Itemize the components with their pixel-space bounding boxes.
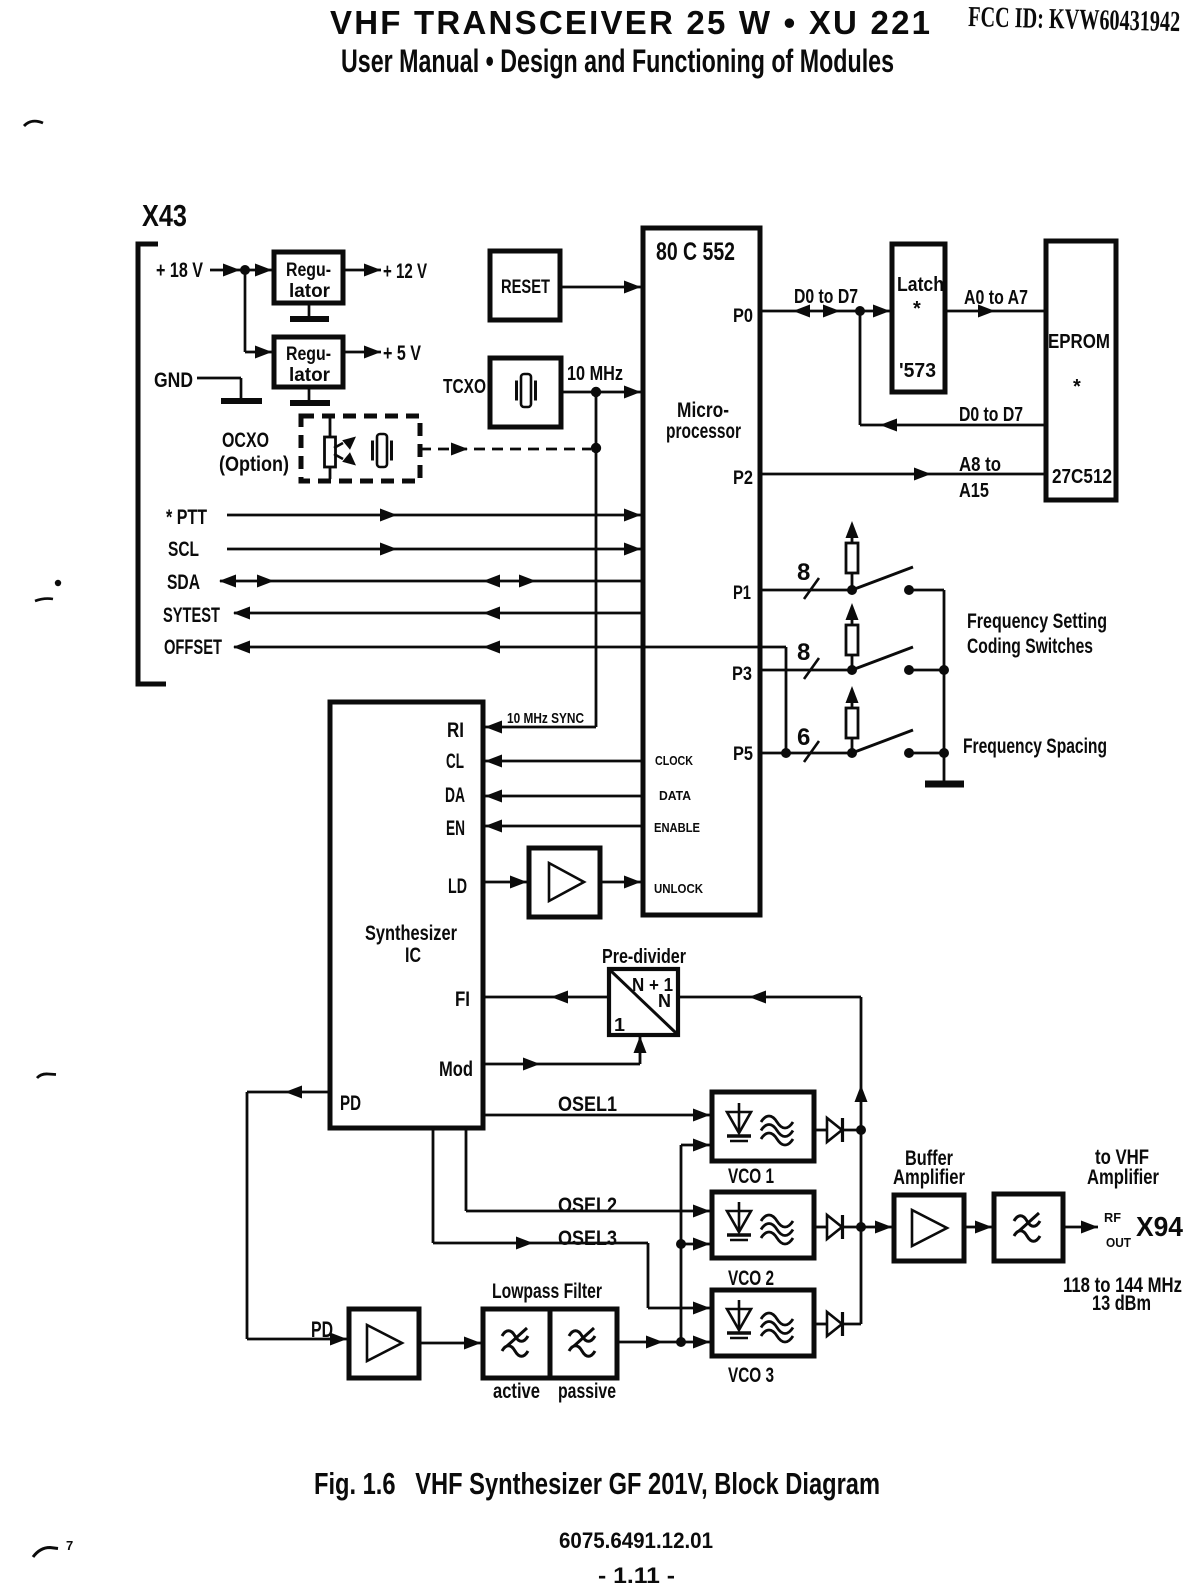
EPROM U 27C512 box [1046, 241, 1116, 500]
svg-text:6075.6491.12.01: 6075.6491.12.01 [559, 1528, 713, 1553]
svg-text:EN: EN [446, 817, 465, 840]
wire +5V output [343, 346, 381, 359]
junction dot data bus [855, 306, 865, 316]
svg-text:LD: LD [448, 875, 467, 898]
svg-text:processor: processor [666, 420, 741, 443]
wire RESET to microprocessor [560, 281, 641, 294]
svg-text:OSEL2: OSEL2 [558, 1194, 617, 1217]
net A8 to A15 label [959, 454, 1001, 502]
wire tune voltage to VCO2 [681, 1238, 710, 1251]
svg-text:Fig. 1.6 VHF Synthesizer GF: Fig. 1.6 VHF Synthesizer GF 201V, Block … [314, 1466, 880, 1501]
svg-text:80 C 552: 80 C 552 [656, 238, 735, 266]
RESET box [490, 251, 560, 320]
svg-text:*: * [1073, 376, 1081, 398]
svg-text:8: 8 [797, 559, 810, 586]
svg-text:P1: P1 [733, 583, 751, 604]
svg-text:'573: '573 [899, 360, 936, 382]
wire CLOCK to CL [485, 755, 643, 768]
svg-text:10 MHz SYNC: 10 MHz SYNC [507, 710, 584, 727]
svg-text:VCO 3: VCO 3 [728, 1364, 774, 1387]
bus width 6 marker P5 [797, 724, 819, 762]
svg-text:P3: P3 [732, 664, 752, 685]
junction +18V branch [240, 265, 250, 275]
svg-text:DA: DA [445, 784, 465, 807]
wire OFFSET to P5 [233, 641, 786, 754]
buffer amplifier box [894, 1195, 964, 1261]
svg-text:lator: lator [289, 365, 331, 386]
svg-text:RF: RF [1104, 1210, 1121, 1225]
wire tune voltage to VCO1 [681, 1139, 710, 1343]
svg-text:*: * [913, 298, 921, 320]
svg-text:Micro-: Micro- [677, 399, 729, 422]
svg-text:+ 12 V: + 12 V [383, 260, 427, 283]
VCO3 box [712, 1290, 814, 1356]
svg-text:OFFSET: OFFSET [164, 636, 222, 659]
regulator +12V box [274, 252, 343, 303]
svg-text:Coding Switches: Coding Switches [967, 635, 1093, 658]
svg-text:User Manual • Design and Funct: User Manual • Design and Functioning of … [341, 43, 894, 79]
svg-text:7: 7 [66, 1538, 73, 1553]
label 118 to 144 MHz [1063, 1274, 1182, 1315]
svg-text:(Option): (Option) [219, 453, 289, 476]
svg-text:P2: P2 [733, 468, 753, 489]
svg-text:FI: FI [455, 988, 470, 1011]
svg-text:PD: PD [340, 1092, 361, 1115]
TCXO box [490, 358, 561, 427]
wire PD loop to lowpass amplifier [247, 1086, 347, 1346]
svg-text:GND: GND [154, 369, 193, 392]
svg-text:UNLOCK: UNLOCK [654, 881, 704, 896]
regulator +5V box [274, 337, 343, 387]
label to VHF Amplifier [1087, 1146, 1159, 1189]
svg-text:VCO 2: VCO 2 [728, 1267, 774, 1290]
svg-text:Mod: Mod [439, 1058, 473, 1081]
svg-text:OSEL1: OSEL1 [558, 1093, 617, 1116]
pre-divider N+1/N box [609, 969, 678, 1035]
VCO2 box [712, 1192, 814, 1258]
wire SYTEST [233, 607, 643, 620]
svg-text:VCO 1: VCO 1 [728, 1165, 774, 1188]
svg-text:Lowpass Filter: Lowpass Filter [492, 1280, 602, 1303]
wire PTT [227, 509, 641, 522]
svg-text:X43: X43 [142, 198, 187, 233]
pullup resistor R3 [846, 686, 859, 753]
svg-text:A0 to A7: A0 to A7 [964, 287, 1028, 309]
microprocessor U 80C552 box [643, 228, 760, 915]
diode D2 VCO2 output [814, 1215, 892, 1239]
svg-text:CLOCK: CLOCK [655, 753, 694, 768]
wire 10MHz sync to RI [485, 721, 596, 734]
net RF OUT label [1104, 1210, 1131, 1250]
OCXO label [219, 429, 289, 476]
Buffer Amplifier label [893, 1147, 965, 1189]
ground below +5V regulator [290, 387, 330, 403]
VCO1 box [712, 1092, 814, 1161]
microprocessor name label [666, 399, 741, 443]
svg-text:SDA: SDA [167, 571, 200, 594]
wire OSEL1 to VCO1 [483, 1109, 710, 1122]
diode D3 VCO3 output [814, 1312, 861, 1336]
wire switch common bus [943, 590, 946, 782]
wire P5 to coding switch 3 [760, 752, 852, 755]
svg-text:Frequency Setting: Frequency Setting [967, 610, 1107, 633]
OCXO trimmer resistor [325, 418, 357, 479]
svg-text:Amplifier: Amplifier [893, 1166, 965, 1189]
svg-text:27C512: 27C512 [1052, 466, 1112, 488]
junction dot VCO2 output [856, 1222, 866, 1232]
OCXO crystal [373, 434, 392, 467]
latch U '573 box [892, 244, 945, 392]
wire +18V branch down to 2nd regulator [245, 270, 274, 359]
svg-text:ENABLE: ENABLE [654, 820, 700, 835]
wire EPROM data return [860, 311, 1046, 432]
svg-text:Frequency Spacing: Frequency Spacing [963, 735, 1107, 758]
wire ENABLE to EN [485, 820, 643, 833]
wire buffer to output filter [964, 1221, 992, 1234]
wire VCO output bus with up arrow [855, 997, 868, 1324]
dashed wire OCXO to 10MHz node [420, 443, 591, 456]
wire filter to VCO3 tune input [617, 1336, 710, 1349]
TCXO crystal [517, 374, 536, 407]
svg-text:PD: PD [311, 1317, 333, 1342]
svg-text:TCXO: TCXO [443, 376, 486, 398]
svg-text:VHF TRANSCEIVER 25 W • XU 221: VHF TRANSCEIVER 25 W • XU 221 [330, 4, 930, 41]
wire SDA bidirectional [219, 575, 645, 588]
OCXO option dashed box [301, 416, 420, 481]
svg-text:- 1.11 -: - 1.11 - [598, 1563, 675, 1585]
svg-text:10 MHz: 10 MHz [567, 363, 623, 385]
svg-text:Regu-: Regu- [286, 260, 331, 281]
svg-text:lator: lator [289, 281, 331, 302]
wire +18V to regulator [210, 264, 274, 277]
svg-text:* PTT: * PTT [166, 506, 207, 529]
svg-text:RI: RI [447, 719, 464, 742]
svg-text:EPROM: EPROM [1048, 331, 1110, 353]
svg-text:6: 6 [797, 724, 810, 751]
wire P1 to coding switch 1 [760, 589, 852, 592]
output lowpass filter box [994, 1194, 1063, 1261]
switch S3 [847, 730, 949, 758]
svg-text:Amplifier: Amplifier [1087, 1166, 1159, 1189]
junction dot VCO1 output [856, 1125, 866, 1135]
wire TCXO 10MHz to microprocessor [561, 386, 641, 399]
svg-text:Synthesizer: Synthesizer [365, 922, 457, 945]
wire VCO feedback to pre-divider [678, 991, 861, 1004]
svg-text:active: active [493, 1380, 540, 1403]
synthesizer IC box [330, 702, 483, 1128]
svg-text:SCL: SCL [168, 538, 199, 561]
pullup resistor R2 [846, 603, 859, 670]
svg-text:N: N [658, 991, 671, 1011]
wire RF out [1063, 1221, 1098, 1234]
wire SCL [227, 543, 641, 556]
svg-text:OSEL3: OSEL3 [558, 1227, 617, 1250]
wire pre-divider to FI [483, 991, 609, 1004]
scan artifact marks [24, 121, 73, 1557]
svg-text:CL: CL [446, 750, 464, 773]
PD loop amplifier box [349, 1309, 419, 1378]
svg-text:OCXO: OCXO [222, 429, 269, 452]
ground GND symbol [221, 398, 262, 404]
wire LD to unlock amplifier [483, 876, 529, 889]
svg-text:P5: P5 [733, 744, 753, 765]
switch S2 [847, 647, 949, 675]
wire P3 to coding switch 2 [760, 669, 852, 672]
svg-text:D0 to D7: D0 to D7 [959, 404, 1023, 426]
junction dot OFFSET on P5 [781, 748, 791, 758]
wire P0 data bus to latch [760, 305, 890, 318]
pullup resistor R1 [846, 521, 859, 590]
wire latch to EPROM address [945, 305, 1046, 318]
ground switch bus [925, 781, 964, 788]
svg-text:A15: A15 [959, 480, 989, 502]
connector X43 bracket [138, 244, 166, 684]
svg-text:Regu-: Regu- [286, 344, 331, 365]
svg-text:+ 18 V: + 18 V [156, 259, 203, 282]
wire amplifier to UNLOCK [600, 876, 641, 889]
bus width 8 marker P1 [797, 559, 819, 599]
svg-text:D0 to D7: D0 to D7 [794, 286, 858, 308]
svg-text:Latch: Latch [897, 274, 944, 296]
wire Mod to pre-divider [483, 1036, 647, 1071]
svg-text:DATA: DATA [659, 788, 692, 803]
wire GND [197, 378, 241, 398]
synthesizer name label [365, 922, 457, 967]
lowpass filter active/passive box [483, 1309, 617, 1378]
wire DATA to DA [485, 790, 643, 803]
svg-text:Pre-divider: Pre-divider [602, 946, 686, 968]
diode D1 VCO1 output [814, 1118, 861, 1142]
svg-text:IC: IC [405, 944, 421, 967]
ground below +12V regulator [290, 303, 329, 319]
wire amplifier to lowpass filter [419, 1337, 481, 1350]
bus width 8 marker P3 [797, 639, 819, 679]
unlock amplifier box [529, 848, 600, 917]
junction dot OCXO/10MHz [591, 443, 601, 453]
label Frequency Setting [967, 610, 1107, 658]
wire OSEL3 to VCO3 [433, 1128, 710, 1315]
svg-text:X94: X94 [1136, 1211, 1183, 1242]
junction dot tune bus bottom [676, 1337, 686, 1347]
wire +12V output [343, 264, 381, 277]
wire 10MHz sync vertical [595, 392, 598, 727]
svg-text:P0: P0 [733, 306, 753, 327]
svg-text:SYTEST: SYTEST [163, 604, 220, 627]
svg-text:FCC ID: KVW60431942: FCC ID: KVW60431942 [968, 1, 1181, 38]
junction dot 10MHz [591, 387, 601, 397]
wire OSEL2 to VCO2 [466, 1128, 710, 1218]
svg-text:OUT: OUT [1106, 1235, 1131, 1250]
svg-text:RESET: RESET [501, 277, 550, 298]
svg-text:8: 8 [797, 639, 810, 666]
wire P2 to EPROM address high [760, 468, 1046, 481]
svg-text:passive: passive [558, 1380, 616, 1403]
junction dot tune bus VCO2 [676, 1239, 686, 1249]
svg-text:+ 5 V: + 5 V [383, 342, 421, 365]
switch S1 [847, 567, 944, 595]
svg-text:1: 1 [614, 1015, 625, 1035]
svg-text:13 dBm: 13 dBm [1092, 1292, 1151, 1315]
